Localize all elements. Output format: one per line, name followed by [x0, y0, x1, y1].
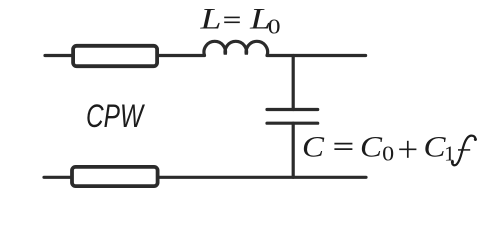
svg-text:C: C — [424, 131, 446, 163]
wire vertical from capacitor to bottom rail — [292, 123, 295, 177]
capacitor C top plate — [267, 108, 318, 111]
label C = C0 + C1 f — [302, 131, 477, 165]
equals sign (drawn) — [334, 144, 352, 150]
italic f (drawn, Computer Modern style) — [451, 136, 477, 166]
svg-text:L: L — [199, 3, 221, 35]
CPW line section (top box) — [73, 46, 157, 66]
wire bottom-left lead — [44, 176, 71, 179]
svg-text:C: C — [302, 131, 324, 163]
capacitor C bottom plate — [267, 122, 318, 125]
svg-text:0: 0 — [382, 142, 394, 166]
wire bottom right segment — [160, 176, 367, 179]
equals sign (drawn) — [224, 17, 240, 22]
svg-text:0: 0 — [268, 14, 281, 38]
plus sign (drawn) — [399, 141, 416, 158]
svg-text:C: C — [360, 131, 382, 163]
inductor L — [204, 41, 268, 54]
wire vertical from node to capacitor — [292, 56, 295, 110]
wire top between box and inductor — [159, 54, 205, 57]
label L = L0 — [199, 3, 280, 38]
CPW line section (bottom box) — [72, 167, 158, 186]
wire top-left lead — [45, 54, 72, 57]
wire top right segment — [267, 54, 366, 57]
svg-text:CPW: CPW — [86, 98, 145, 134]
